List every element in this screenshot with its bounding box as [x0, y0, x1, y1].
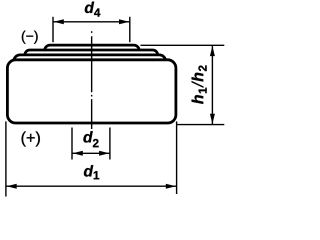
dimension d2 extension line right	[109, 128, 111, 160]
dimension d4 extension line right	[129, 17, 131, 42]
dimension d4 extension line left	[52, 17, 54, 42]
dimension h extension line top	[141, 44, 225, 46]
dimension h arrow bottom	[210, 114, 215, 124]
dimension d2 arrow left	[73, 151, 83, 156]
dimension d4 line	[53, 21, 130, 23]
dimension h line	[211, 45, 213, 124]
dimension d2 extension line left	[71, 128, 73, 160]
label d4	[85, 2, 101, 17]
dimension d1 arrow left	[7, 184, 17, 189]
dimension d4 arrow left	[54, 19, 64, 24]
cap raised plateau (negative terminal top)	[45, 45, 140, 57]
label h1/h2	[192, 65, 207, 103]
label d2	[83, 131, 98, 147]
label d1	[84, 165, 99, 179]
dimension d1 extension line right	[176, 121, 178, 194]
dimension d1 line	[6, 185, 177, 187]
cell can body (+)	[7, 60, 176, 123]
dimension d2 arrow right	[99, 151, 109, 156]
cap flange	[25, 50, 158, 62]
dimension d1 arrow right	[166, 184, 176, 189]
centerline (dash-dot axis)	[91, 31, 93, 133]
label (-)	[22, 31, 38, 44]
dimension d4 arrow right	[119, 19, 129, 24]
dimension d2 line	[72, 152, 110, 154]
gasket ring	[14, 55, 166, 69]
dimension d1 extension line left	[5, 121, 7, 196]
dimension h arrow top	[210, 46, 215, 56]
dimension h extension line bottom	[177, 124, 224, 126]
label (+)	[22, 131, 40, 146]
